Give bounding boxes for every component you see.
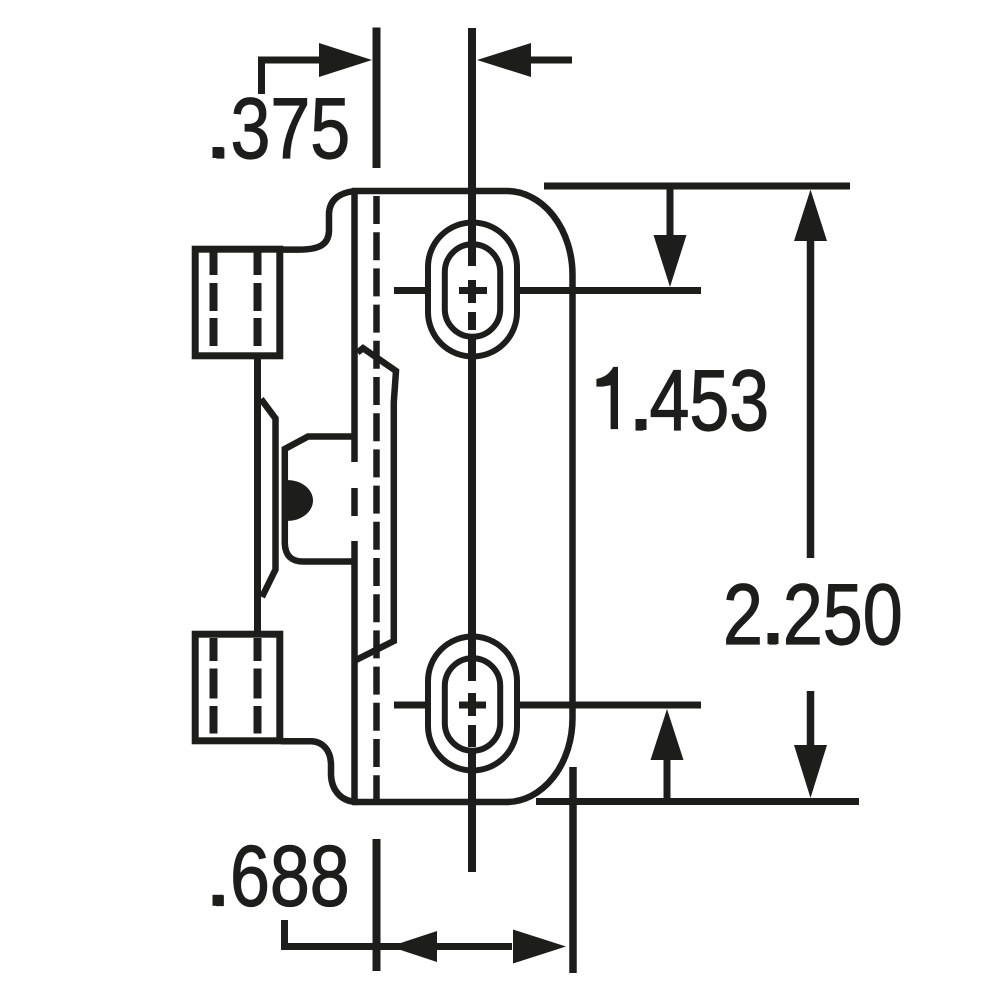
period dot of .688 — [213, 895, 224, 906]
vertical centerline segment below bottom slot — [468, 753, 476, 872]
plate left edge upper segment — [351, 191, 358, 462]
extension line for .375 (top) — [373, 28, 381, 169]
svg-text:.688: .688 — [210, 827, 350, 924]
2.250 dimension line upper arrowhead — [794, 190, 827, 242]
extension line for .688 (bottom left) — [373, 839, 381, 971]
period dot of .375 — [213, 147, 224, 158]
latch tongue profile (bump) — [285, 437, 356, 562]
period dot of 1.453 — [636, 419, 647, 430]
top slot center mark horizontal — [459, 287, 487, 294]
bottom slot crosshair horizontal right — [518, 702, 701, 709]
top slot center dash below — [468, 312, 476, 330]
.688 left arrowhead pointing left — [390, 931, 437, 962]
svg-text:2.250: 2.250 — [723, 566, 903, 663]
lower pocket hidden line left — [210, 638, 218, 734]
.375 right arrow pointing left at centerline — [477, 43, 531, 77]
lower pocket hidden line right — [254, 638, 262, 734]
upper pocket rectangle — [195, 249, 280, 356]
upper pocket hidden line left — [210, 251, 218, 347]
upper pocket hidden line right — [254, 251, 262, 347]
.688 leader elbow — [285, 920, 513, 947]
top slot crosshair horizontal left — [394, 287, 426, 294]
connecting bar between pockets — [254, 356, 261, 634]
tongue detent (filled half-disc) — [287, 480, 313, 521]
1.453 upper reference line — [544, 183, 850, 190]
vertical centerline segment between slots — [468, 339, 476, 681]
bottom slot center dash below — [468, 725, 476, 747]
.375 leader and dimension line — [262, 60, 321, 94]
top slot outer obround — [428, 223, 517, 357]
bottom slot center mark vertical — [468, 693, 476, 716]
bottom slot center mark horizontal — [459, 702, 486, 709]
lower reference line — [536, 798, 859, 805]
vertical centerline segment above top slot center — [468, 28, 476, 266]
plate left edge lower segment — [351, 541, 358, 802]
top slot crosshair horizontal right — [519, 287, 701, 294]
bottom ogee step from lower pocket ledge to plate bottom edge — [281, 741, 357, 802]
.375 arrow pointing right — [319, 43, 372, 77]
2.250 dimension line lower stem — [807, 691, 815, 746]
.375 right arrow tail — [530, 57, 572, 64]
chamfered strip (edge view of plate flange) — [356, 348, 396, 660]
plate outline (keeper body, top/right/bottom edges with corner radii) — [352, 191, 573, 802]
1.453 down arrowhead — [654, 235, 687, 287]
bottom slot inner obround — [445, 658, 500, 750]
svg-text:.453: .453 — [630, 352, 770, 449]
period dot of 2.250 — [768, 633, 779, 644]
hidden line along plate (dashed) — [373, 196, 380, 802]
bottom slot outer obround — [428, 637, 517, 771]
extension line at bottom right — [569, 767, 577, 973]
top slot inner obround — [445, 244, 500, 336]
bottom slot crosshair horizontal left — [394, 702, 425, 709]
wedge tab profile on bar — [261, 399, 276, 597]
1.453 text — [597, 368, 617, 429]
2.250 dimension line upper stem — [807, 239, 815, 558]
plate left edge hidden dash behind tongue — [351, 488, 358, 516]
1.453 up arrow stem — [664, 758, 671, 802]
lower pocket rectangle — [195, 634, 280, 741]
2.250 dimension line lower arrowhead — [794, 745, 827, 798]
top ogee step from plate top edge to upper pocket ledge — [281, 191, 353, 249]
1.453 up arrowhead at bottom slot line — [651, 709, 684, 760]
1.453 down arrow stem — [667, 186, 674, 237]
svg-text:.375: .375 — [211, 80, 351, 177]
top slot center mark vertical — [468, 280, 476, 303]
.688 right arrowhead pointing right — [513, 930, 566, 964]
